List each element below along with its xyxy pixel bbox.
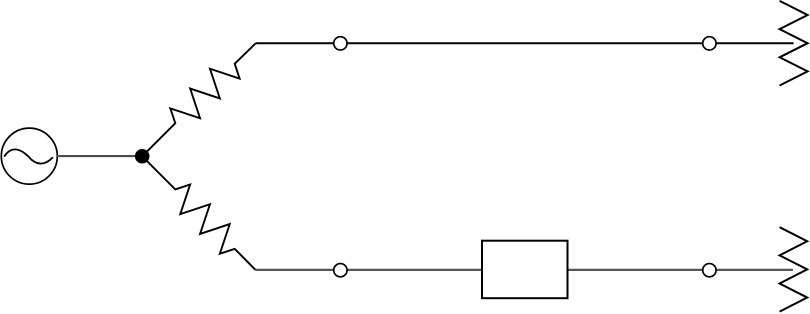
wire: bottom horizontal run [256,269,793,271]
terminal circle T3 (bottom left port) [334,264,347,277]
terminal circle T4 (bottom right port) [703,264,716,277]
load resistor RL2 (bottom right, vertical zigzag) [780,227,808,311]
resistor R2 (lower branch, diagonal) [142,156,255,270]
node A (junction dot) [135,149,150,164]
terminal circle T1 (top left port) [334,37,347,50]
AC source V1 [1,128,57,184]
resistor R1 (upper branch, diagonal) [142,43,256,156]
wire from source to node A [56,155,142,157]
wire: top horizontal run [256,42,794,44]
box U1 (two-port network block) [482,241,568,299]
terminal circle T2 (top right port) [703,37,716,50]
load resistor RL1 (top right, vertical zigzag) [780,1,808,86]
